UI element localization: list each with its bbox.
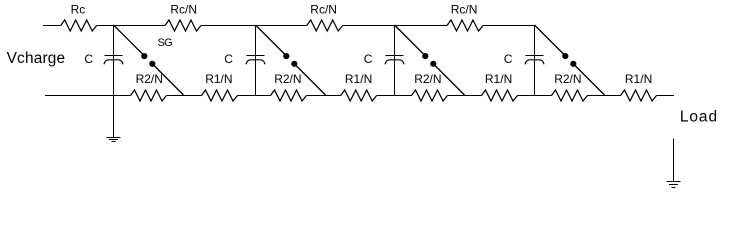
- wire node 1 to ground: [113, 95, 115, 137]
- spark gap SG4 lower electrode wire to bottom rail junction: [574, 64, 605, 95]
- wire Rc/N 3 to node 4: [483, 25, 535, 27]
- node 2 / wire capacitor C2 lead (top rail to bottom rail): [255, 25, 257, 95]
- spark gap SG3 upper electrode wire: [395, 25, 426, 56]
- svg-text:C: C: [364, 52, 373, 66]
- ground symbol (right, load return): [667, 182, 681, 188]
- resistor R2/N 1: [131, 90, 167, 101]
- node 3 / wire capacitor C3 lead (top rail to bottom rail): [394, 25, 396, 95]
- spark gap SG1 lower ball: [149, 61, 155, 67]
- resistor Rc: [61, 20, 97, 31]
- svg-text:R2/N: R2/N: [554, 72, 581, 86]
- svg-text:Rc: Rc: [71, 3, 86, 17]
- spark gap SG3 lower ball: [430, 61, 436, 67]
- wire Rc to Rc/N 1 (through node 1): [97, 25, 165, 27]
- wire bottom rail segment: [377, 95, 412, 97]
- resistor R1/N 4: [621, 90, 657, 101]
- svg-text:SG: SG: [158, 37, 173, 49]
- capacitor C2 curved plate: [246, 60, 265, 65]
- capacitor C4 curved plate: [525, 60, 544, 65]
- svg-text:C: C: [504, 52, 513, 66]
- spark gap SG2 lower electrode wire to bottom rail junction: [295, 64, 326, 95]
- resistor Rc/N 3: [447, 20, 483, 31]
- node 4 / wire capacitor C4 lead (top rail to bottom rail): [534, 25, 536, 95]
- wire bottom-left stub from Vcharge (through node 1 bottom): [45, 95, 131, 97]
- spark gap SG4 lower ball: [570, 61, 576, 67]
- resistor R2/N 2: [271, 90, 307, 101]
- svg-text:Vcharge: Vcharge: [7, 50, 66, 67]
- resistor R1/N 1: [202, 90, 238, 101]
- svg-text:Rc/N: Rc/N: [310, 3, 337, 17]
- svg-text:R1/N: R1/N: [345, 72, 372, 86]
- wire Rc/N 2 to Rc/N 3 (through node 3): [343, 25, 447, 27]
- spark gap SG1 upper electrode wire: [114, 25, 145, 56]
- wire bottom rail segment: [167, 95, 202, 97]
- svg-text:Rc/N: Rc/N: [451, 3, 478, 17]
- capacitor C1 curved plate: [104, 60, 123, 65]
- svg-text:Load: Load: [680, 109, 718, 126]
- spark gap SG1 upper ball: [141, 53, 147, 59]
- spark gap SG3 upper ball: [422, 53, 428, 59]
- wire top-left stub from Vcharge: [43, 25, 61, 27]
- resistor R2/N 4: [552, 90, 588, 101]
- wire bottom rail segment: [307, 95, 341, 97]
- spark gap SG2 lower ball: [291, 61, 297, 67]
- svg-text:R1/N: R1/N: [485, 72, 512, 86]
- capacitor C1 top plate: [105, 55, 123, 57]
- resistor Rc/N 2: [307, 20, 343, 31]
- svg-text:R2/N: R2/N: [136, 72, 163, 86]
- capacitor C3 top plate: [386, 55, 404, 57]
- ground symbol (left, charging node): [107, 138, 121, 142]
- resistor R1/N 2: [341, 90, 377, 101]
- wire bottom rail segment: [448, 95, 482, 97]
- svg-text:R1/N: R1/N: [205, 72, 232, 86]
- svg-text:R2/N: R2/N: [414, 72, 441, 86]
- svg-text:Rc/N: Rc/N: [170, 3, 197, 17]
- resistor R2/N 3: [412, 90, 448, 101]
- spark gap SG3 lower electrode wire to bottom rail junction: [434, 64, 465, 95]
- svg-text:C: C: [84, 52, 93, 66]
- wire load to ground: [673, 139, 675, 182]
- svg-text:R2/N: R2/N: [274, 72, 301, 86]
- resistor R1/N 3: [482, 90, 518, 101]
- wire bottom rail segment: [588, 95, 621, 97]
- capacitor C3 curved plate: [385, 60, 404, 65]
- spark gap SG2 upper ball: [283, 53, 289, 59]
- capacitor C2 top plate: [247, 55, 265, 57]
- spark gap SG4 upper electrode wire: [535, 25, 566, 56]
- spark gap SG1 lower electrode wire to bottom rail junction: [153, 64, 184, 95]
- wire bottom rail segment: [518, 95, 552, 97]
- svg-text:C: C: [224, 52, 233, 66]
- node 1 / wire capacitor C1 lead (top rail to bottom rail): [113, 25, 115, 95]
- spark gap SG4 upper ball: [562, 53, 568, 59]
- capacitor C4 top plate: [526, 55, 544, 57]
- svg-text:R1/N: R1/N: [625, 72, 652, 86]
- wire Rc/N 1 to Rc/N 2 (through node 2): [201, 25, 307, 27]
- resistor Rc/N 1: [165, 20, 201, 31]
- wire bottom rail to Load: [657, 95, 675, 97]
- spark gap SG2 upper electrode wire: [256, 25, 287, 56]
- wire bottom rail segment: [238, 95, 271, 97]
